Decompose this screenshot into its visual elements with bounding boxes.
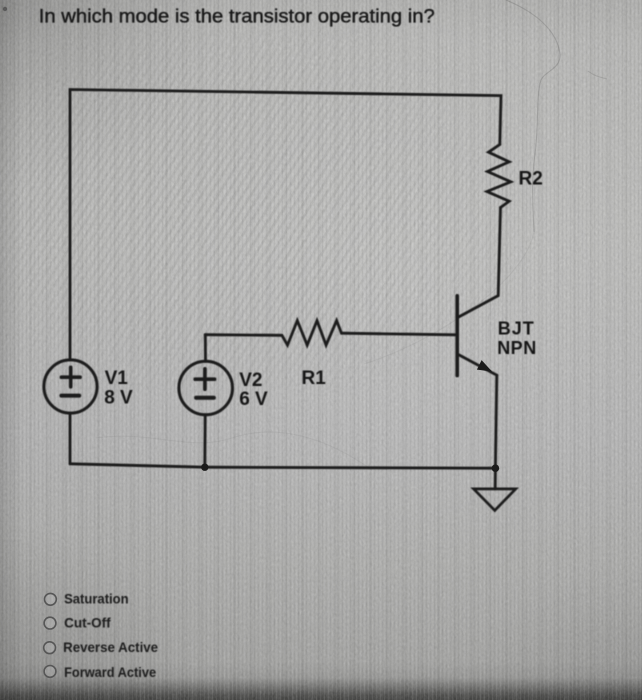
- svg-text:V1: V1: [105, 368, 129, 389]
- svg-text:8 V: 8 V: [104, 387, 133, 408]
- svg-text:In which mode is the transisto: In which mode is the transistor operatin…: [39, 6, 435, 27]
- svg-text:Forward Active: Forward Active: [64, 665, 156, 680]
- svg-text:V2: V2: [239, 370, 262, 391]
- svg-text:Saturation: Saturation: [64, 591, 129, 606]
- svg-text:R2: R2: [519, 168, 543, 189]
- svg-text:Cut-Off: Cut-Off: [64, 616, 111, 631]
- svg-text:Reverse Active: Reverse Active: [63, 640, 158, 655]
- svg-text:BJT: BJT: [498, 318, 535, 338]
- svg-text:R1: R1: [302, 368, 327, 389]
- svg-text:6 V: 6 V: [239, 389, 268, 410]
- svg-text:NPN: NPN: [497, 338, 537, 358]
